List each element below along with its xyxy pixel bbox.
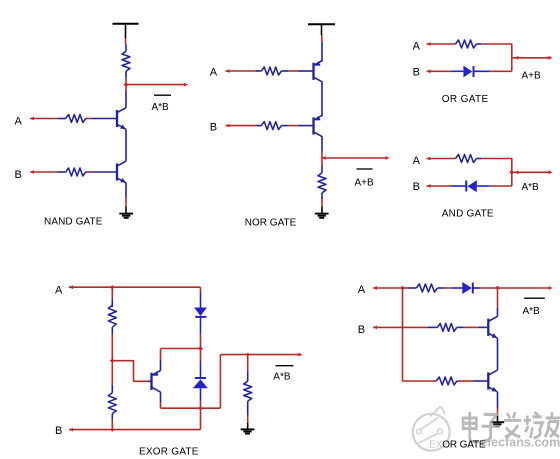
node AND output junction (509, 170, 514, 174)
svg-text:A: A (413, 41, 421, 53)
wire (111, 334, 113, 361)
overline A+B (NOR) (357, 168, 373, 170)
wire Q3 to Q4 (321, 82, 323, 116)
node EXOR junction B (110, 428, 115, 432)
node EXOR junction A (110, 285, 115, 289)
watermark logo circle (413, 407, 450, 451)
wire (321, 199, 323, 207)
transistor Q1 (NAND) (116, 110, 118, 127)
svg-text:A: A (210, 66, 218, 78)
wire (288, 125, 298, 127)
resistor R9 (EXOR upper left) (111, 287, 113, 299)
wire EXOR output (220, 354, 300, 356)
power rail VCC (NOR) (308, 23, 335, 25)
wire (458, 380, 474, 382)
wire Q2 base lead (92, 171, 116, 173)
svg-text:A*B: A*B (273, 372, 291, 383)
resistor R1 (NAND pull-up) (125, 45, 127, 52)
svg-text:A+B: A+B (522, 71, 542, 82)
node output junction (245, 353, 250, 357)
wire NAND output (126, 84, 185, 86)
svg-text:EXOR GATE: EXOR GATE (429, 440, 486, 451)
svg-text:A*B: A*B (523, 306, 541, 317)
transistor Q2 (NAND) (116, 163, 118, 180)
wire Q7 emitter to ground (497, 392, 499, 408)
wire bottom bus (161, 407, 221, 409)
resistor R7 (OR input A) (456, 40, 477, 48)
svg-text:B: B (15, 169, 22, 181)
wire (247, 415, 249, 423)
wire Q5 collector (160, 360, 162, 371)
svg-text:A: A (413, 155, 421, 167)
wire Q6 collector riser (497, 288, 499, 308)
wire Q5 base lead (148, 380, 151, 382)
watermark logo electron link (421, 417, 439, 430)
svg-text:elecfans.com: elecfans.com (481, 436, 560, 450)
wire AND input A (427, 157, 431, 161)
diode D3 (EXOR upper, pointing down) (200, 287, 202, 292)
wire (481, 44, 511, 71)
wire NOR input A (226, 69, 230, 73)
wire Q2 emitter to ground (125, 183, 127, 197)
overline A*B (NAND) (154, 94, 171, 96)
svg-text:A: A (15, 116, 23, 128)
svg-text:A+B: A+B (355, 178, 375, 189)
wire collector to diodes (161, 348, 201, 350)
svg-text:B: B (413, 67, 420, 79)
resistor R6 (NOR pull-down) (321, 158, 323, 166)
resistor R14 (BR third branch) (436, 377, 457, 385)
node NOR output junction (322, 156, 326, 160)
wire NOR output (322, 157, 387, 159)
resistor R11 (EXOR pull-down) (247, 355, 249, 372)
wire base link (112, 361, 147, 382)
resistor R3 (NAND base B) (57, 171, 65, 173)
wire Q4 base lead (298, 125, 312, 127)
wire (321, 35, 323, 42)
wire NOR input B (226, 124, 230, 128)
wire (480, 287, 498, 289)
svg-text:B: B (210, 121, 217, 133)
wire Q5 emitter (160, 392, 162, 402)
wire (200, 401, 202, 408)
svg-text:B: B (55, 425, 62, 437)
transistor Q7 (BR) (487, 372, 489, 389)
ground (NOR) (315, 213, 329, 215)
svg-text:A*B: A*B (152, 102, 170, 113)
node diode junction (198, 346, 203, 350)
transistor Q5 (EXOR) (150, 373, 152, 390)
svg-text:B: B (358, 324, 365, 336)
wire B riser (200, 408, 202, 429)
resistor R12 (BR input A) (403, 287, 409, 289)
svg-text:A: A (358, 284, 366, 296)
overline A*B (EXOR) (276, 365, 294, 367)
resistor R10 (EXOR lower left) (111, 361, 113, 385)
resistor R13 (BR input B) (428, 326, 437, 328)
watermark chinese characters dian zi fa shao you (463, 412, 560, 442)
wire (490, 70, 512, 72)
wire (87, 171, 92, 173)
wire EXOR input B (69, 428, 73, 432)
wire OR input A (427, 42, 431, 46)
wire Q4 emitter down (321, 137, 323, 151)
wire (111, 419, 113, 430)
wire (125, 78, 127, 85)
wire Q1 base lead (92, 118, 116, 120)
resistor R2 (NAND base A) (57, 118, 65, 120)
wire NAND input A (30, 117, 34, 121)
wire BR input A (373, 286, 377, 290)
wire (288, 70, 298, 72)
wire (481, 159, 511, 187)
wire (464, 326, 478, 328)
wire AND output (512, 171, 550, 173)
wire EXOR input A (69, 285, 73, 289)
wire OR output (512, 57, 550, 59)
wire Q1 emitter to Q2 collector (125, 129, 127, 161)
resistor R4 (NOR base A) (255, 70, 261, 72)
svg-text:NOR GATE: NOR GATE (245, 218, 297, 229)
wire AND input B (427, 184, 431, 188)
wire (444, 287, 451, 289)
svg-text:AND GATE: AND GATE (442, 209, 494, 220)
svg-text:OR GATE: OR GATE (442, 94, 489, 105)
wire BR output (498, 287, 551, 289)
watermark logo electron dots (417, 429, 422, 434)
wire Q6 base lead (478, 326, 487, 328)
svg-text:NAND GATE: NAND GATE (44, 217, 103, 228)
ground (EXOR) (241, 428, 255, 430)
wire (125, 38, 127, 45)
wire (87, 118, 92, 120)
overline A*B (BR) (524, 297, 545, 299)
node OR output junction (515, 56, 519, 60)
wire (200, 334, 202, 349)
resistor R5 (NOR base B) (255, 125, 261, 127)
wire BR input B (373, 326, 377, 330)
wire output riser (219, 355, 221, 409)
diode D4 (EXOR lower, pointing up) (200, 349, 202, 362)
wire OR input B (427, 69, 431, 73)
wire Q3 emitter lead (321, 42, 323, 61)
power rail VCC (NAND) (113, 23, 139, 25)
ground (BR) (490, 421, 504, 423)
wire Q7 base lead (474, 380, 487, 382)
node NAND output junction (123, 83, 128, 87)
svg-text:A: A (55, 284, 63, 296)
svg-text:EXOR GATE: EXOR GATE (139, 446, 199, 457)
wire Q3 base lead (298, 70, 312, 72)
transistor Q6 (BR) (487, 319, 489, 336)
wire NAND input B (30, 170, 34, 174)
svg-text:B: B (413, 181, 420, 193)
svg-text:A*B: A*B (522, 182, 540, 193)
diode D2 (AND input B) (451, 185, 466, 187)
transistor Q4 (NOR) (312, 117, 314, 134)
wire (490, 185, 512, 187)
transistor Q3 (NOR) (312, 63, 314, 80)
diode D5 (BR, pointing right) (451, 287, 462, 289)
node EXOR bottom junction (198, 406, 203, 410)
wire BR third branch (403, 288, 437, 381)
wire Q6 emitter to Q7 collector (497, 338, 499, 370)
ground (NAND) (119, 213, 133, 215)
wire Q1 collector (125, 85, 127, 91)
node BR output junction (495, 286, 500, 290)
node EXOR junction mid-left (110, 359, 115, 363)
diode D1 (OR input B) (451, 70, 464, 72)
node BR junction A (400, 286, 405, 290)
resistor R8 (AND input A) (456, 155, 477, 163)
